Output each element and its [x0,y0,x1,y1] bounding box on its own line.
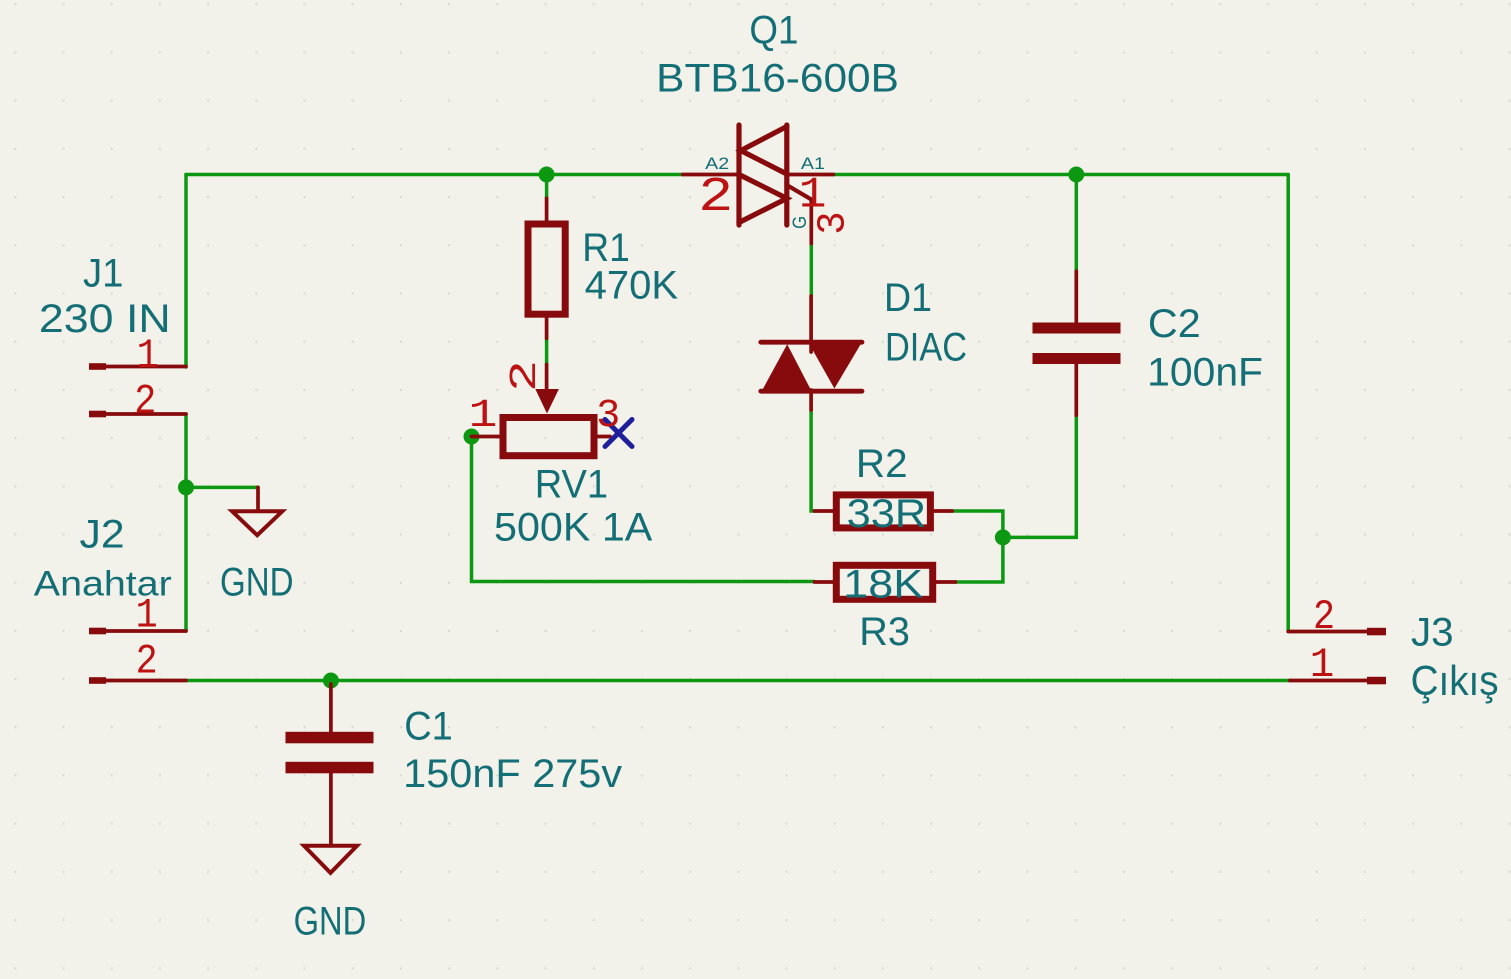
svg-text:C1: C1 [404,705,453,749]
wire gate to diac [810,244,814,297]
svg-text:1: 1 [137,332,159,380]
svg-text:1: 1 [469,394,498,439]
wire R1 to RV1 [545,338,549,364]
wire left vertical lower [184,414,188,631]
svg-text:18K: 18K [843,563,923,607]
svg-text:2: 2 [134,378,156,426]
svg-text:J3: J3 [1411,611,1454,655]
triac Q1 [683,125,834,244]
connector J3 pin 2 [1288,628,1386,636]
svg-text:2: 2 [698,171,733,225]
svg-text:G: G [790,216,811,229]
junction node C1 [323,673,339,689]
wire gnd branch [186,486,258,490]
junction node top C2 [1068,167,1084,183]
svg-text:1: 1 [1310,641,1335,689]
svg-text:DIAC: DIAC [885,326,967,370]
svg-text:A2: A2 [705,154,729,173]
wire R2 right to node [952,511,1003,537]
wire right vertical [1286,175,1290,632]
svg-text:2: 2 [504,360,547,392]
svg-text:100nF: 100nF [1147,351,1263,395]
potentiometer RV1 [472,365,611,456]
connector J1 pin 2 [89,411,186,418]
svg-text:C2: C2 [1148,302,1201,346]
wire top horizontal left [186,173,683,177]
junction node R2/R3/C2 [995,529,1011,545]
svg-text:J2: J2 [80,513,125,557]
svg-text:R2: R2 [856,442,908,486]
diac D1 [761,296,862,410]
svg-text:2: 2 [1313,593,1335,641]
wire node to C2 [1003,415,1076,537]
wire diac to R2 [811,410,814,511]
svg-text:GND: GND [294,900,367,944]
wire R1 top stub [545,175,549,199]
svg-text:D1: D1 [884,276,932,320]
svg-text:R3: R3 [859,610,910,654]
resistor R3 [814,565,955,599]
capacitor C2 [1033,271,1121,415]
svg-text:J1: J1 [83,252,124,296]
junction node gnd J1/J2 [178,479,194,495]
connector J2 pin 1 [89,628,186,635]
connector J1 pin 1 [89,363,186,370]
svg-text:Çıkış: Çıkış [1411,657,1499,704]
wire C2 top [1075,175,1079,272]
wire bottom rail [186,679,1290,683]
connector J3 pin 1 [1290,677,1386,685]
svg-text:3: 3 [812,211,857,234]
svg-text:2: 2 [136,638,158,686]
wire top horizontal right [833,173,1288,177]
svg-text:A1: A1 [801,154,825,173]
svg-text:470K: 470K [585,264,679,308]
svg-text:500K 1A: 500K 1A [494,506,653,550]
svg-text:BTB16-600B: BTB16-600B [656,57,899,101]
junction node RV1 pin1 [464,429,480,445]
svg-text:RV1: RV1 [535,463,608,507]
resistor R2 [814,495,952,528]
junction node top R1 [539,167,555,183]
svg-text:3: 3 [596,394,620,439]
svg-text:1: 1 [136,592,158,640]
svg-text:150nF 275v: 150nF 275v [403,752,622,796]
svg-text:Q1: Q1 [749,9,798,53]
svg-text:GND: GND [220,561,294,605]
ground symbol below C1 [304,846,357,873]
wire RV1 pin1 down and across to R3 [472,437,815,582]
wire left vertical upper [184,175,188,368]
no-connect X on RV1 pin 3 [605,420,632,447]
resistor R1 [528,198,565,338]
wire R3 right to node [956,537,1003,582]
ground symbol near J2 [232,487,282,535]
capacitor C1 [286,684,374,846]
connector J2 pin 2 [89,677,186,684]
svg-text:33R: 33R [847,492,927,536]
